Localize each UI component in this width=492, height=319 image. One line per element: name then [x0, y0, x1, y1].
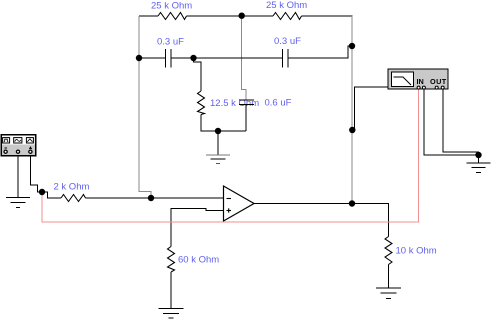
wire top row middle — [187, 15, 274, 17]
resistor R5 60k zigzag vertical — [168, 247, 175, 273]
capacitor C1 0.3uF plates — [165, 49, 167, 68]
node junction right ground — [475, 152, 481, 158]
svg-text:2 k Ohm: 2 k Ohm — [54, 182, 90, 193]
svg-text:60 k Ohm: 60 k Ohm — [178, 255, 219, 266]
wire right rail — [351, 16, 353, 204]
wire cap row middle — [171, 57, 283, 59]
wire Bode OUT- to ground — [443, 90, 479, 156]
resistor R4 2k zigzag — [61, 195, 86, 202]
wire stem to middle ground — [217, 131, 219, 155]
svg-text:IN: IN — [417, 77, 424, 86]
capacitor C3 0.6uF plates — [239, 99, 254, 101]
node junction top middle — [239, 13, 245, 19]
ground right — [467, 163, 491, 173]
node junction cap1 right — [190, 55, 196, 61]
wire branch to R3 — [194, 58, 202, 91]
wire cap row right with jog up — [288, 46, 352, 58]
svg-text:0.6 uF: 0.6 uF — [265, 98, 292, 109]
ground below R5 — [159, 309, 184, 319]
svg-text:0.3 uF: 0.3 uF — [157, 37, 184, 48]
svg-text:10 k Ohm: 10 k Ohm — [396, 246, 437, 257]
ground below FG — [6, 198, 30, 208]
wire red from FG plus node to Bode IN+ — [42, 90, 419, 223]
ground below R6 — [376, 288, 401, 299]
svg-text:25 k Ohm: 25 k Ohm — [266, 0, 307, 11]
resistor R1 25k zigzag — [158, 13, 187, 20]
wire input node jog — [42, 192, 61, 198]
wire to op-amp minus input — [86, 197, 224, 199]
wire FG common to ground — [17, 156, 19, 198]
node junction left rail cap row — [136, 55, 142, 61]
wire cap row left — [139, 57, 165, 59]
node junction right rail cap branch — [349, 43, 355, 49]
wire R5 bottom lead — [170, 272, 172, 309]
node junction output rail — [349, 200, 355, 206]
wire Bode IN- to ground — [424, 90, 479, 156]
wire middle rail — [242, 16, 246, 100]
node junction input row — [148, 195, 154, 201]
wire op-amp output row — [254, 204, 389, 237]
svg-text:25 k Ohm: 25 k Ohm — [151, 1, 192, 12]
function generator XFG1 — [1, 135, 36, 156]
node junction bottom middle — [215, 128, 221, 134]
resistor R2 25k zigzag — [273, 13, 302, 20]
capacitor C2 0.3uF plates — [282, 49, 284, 68]
Bode plotter XBP1 — [388, 69, 448, 89]
svg-text:OUT: OUT — [430, 77, 447, 86]
svg-text:0.3 uF: 0.3 uF — [274, 36, 301, 47]
wire top row left lead — [139, 15, 158, 17]
wire C3 bottom stem — [245, 105, 247, 132]
wire left rail — [139, 16, 151, 198]
ground middle — [206, 155, 230, 164]
wire R3 bottom lead — [201, 115, 246, 132]
node junction FG plus — [39, 189, 45, 195]
resistor R3 12.5k zigzag vertical — [198, 91, 205, 115]
wire top row right lead — [302, 15, 353, 17]
wire stem to right ground — [478, 155, 480, 163]
wire R6 bottom lead — [388, 265, 390, 289]
op-amp U1 — [224, 186, 255, 221]
node junction right rail bode branch — [349, 127, 355, 133]
wire bode OUT branch — [355, 87, 390, 130]
resistor R6 10k zigzag vertical — [385, 237, 392, 265]
wire op-amp plus input — [171, 209, 224, 247]
wire FG plus to node — [30, 156, 42, 193]
